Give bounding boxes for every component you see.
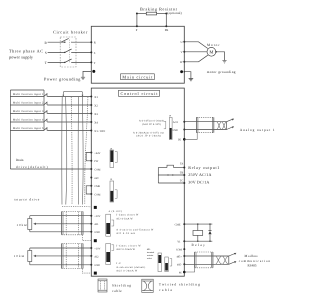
svg-text:10kΩ: 10kΩ [14,254,25,258]
svg-text:A-sub-circuit (default): A-sub-circuit (default) [116,266,145,269]
terminal V [183,51,185,53]
+24V terminal [90,152,92,154]
AO1 terminal [183,121,185,123]
svg-text:Main circuit: Main circuit [122,75,153,80]
GND wire AO [184,129,226,131]
svg-text:A 0-10V(or 0-20mA): A 0-10V(or 0-20mA) [139,119,164,122]
svg-text:10kΩ: 10kΩ [17,223,28,227]
svg-text:communication: communication [239,259,271,263]
svg-text:250V AC/1A: 250V AC/1A [188,172,211,177]
AI2 notes [116,214,154,236]
svg-text:U: U [181,40,184,44]
twisted cable bundle B [78,97,88,205]
motor M [207,43,220,56]
AO1 jumper bracket [164,121,166,129]
PE dot bottom left [94,272,97,275]
svg-text:S: S [94,51,96,55]
svg-text:PE: PE [178,139,181,142]
wire V to motor [184,51,206,53]
svg-text:Three phase AC: Three phase AC [9,49,43,54]
485 jumper strip 1 [158,253,162,272]
svg-text:Drain: Drain [16,158,24,162]
svg-text:V: V [181,50,184,54]
svg-text:Relay output1: Relay output1 [188,165,219,170]
svg-text:R: R [94,41,96,45]
svg-text:AI2 0-JmA W: AI2 0-JmA W [116,217,133,220]
multi function input 1 [10,93,98,99]
jumper strip J3 [110,147,117,167]
AI1 terminal [90,223,92,225]
svg-text:TA: TA [180,162,183,165]
svg-text:PB: PB [165,29,169,32]
wire GND pot2 [30,264,92,266]
COM2 terminal [90,177,92,179]
wire P stub [136,14,138,27]
svg-text:AI2 0-20 mA: AI2 0-20 mA [116,232,135,235]
svg-text:X1: X1 [94,95,98,99]
motor ground wire [216,52,224,61]
svg-text:30V DC/1A: 30V DC/1A [188,180,209,185]
svg-text:R: R [45,41,48,45]
AO2 jumper strip S2 [106,244,114,265]
potentiometer RP1 10k [17,216,37,232]
GND terminal AO [183,129,185,131]
TA terminal [183,167,185,169]
twisted pair 485 [216,256,229,264]
485 shield drain [184,268,194,272]
PE terminal left [92,70,95,73]
PE right ground wire [184,72,191,79]
svg-text:J-Cmos closet W: J-Cmos closet W [116,244,141,247]
phase T row [45,59,96,65]
svg-text:resistor: resistor [147,254,154,257]
svg-text:Analog output 1: Analog output 1 [240,128,275,132]
terminal PB [165,25,167,27]
ground symbol left [81,77,85,79]
svg-text:power supply: power supply [9,55,34,60]
svg-text:CME: CME [94,185,100,188]
485 terminal resistor note [147,248,155,260]
svg-text:T: T [94,61,96,65]
AI2 jumper strip S1 [106,214,114,236]
svg-text:motor grounding: motor grounding [207,70,236,74]
legend twisted shielding cable [142,279,153,292]
shield box AO1 [197,117,214,132]
Y1 terminal [183,240,185,242]
svg-text:COM: COM [176,248,183,251]
AO1 wire [184,121,226,123]
potentiometer RP2 10k [14,248,36,265]
svg-text:source drive: source drive [14,198,39,202]
svg-text:Shielding: Shielding [112,283,131,287]
ground symbol PE right [189,79,194,81]
terminal P [136,25,138,27]
AO shield drain to PE [183,138,186,141]
cable shield drain to PE [62,205,91,207]
multi function input 2 [10,102,98,108]
485 jumper strip 2 [165,257,172,272]
common wire to COM [10,168,91,170]
svg-text:X2: X2 [94,103,98,107]
svg-text:PE: PE [179,271,182,274]
svg-text:(optional): (optional) [167,11,181,15]
svg-text:485: 485 [147,248,151,251]
svg-text:AI1: AI1 [94,223,99,226]
Control circuit label [119,90,160,96]
legend shielding cable [98,279,107,292]
multi function input 4 [10,119,98,125]
svg-text:cable: cable [112,289,122,293]
svg-text:485-: 485- [177,264,182,267]
svg-text:+24V: +24V [94,152,100,155]
svg-text:Power grounding: Power grounding [44,76,81,81]
jumper CME-COM [86,186,91,194]
svg-text:485+: 485+ [176,255,182,258]
wire AI2 [36,255,92,257]
svg-text:Circuit breaker: Circuit breaker [53,29,88,34]
svg-text:CME: CME [175,223,181,226]
wire to ground [83,71,91,77]
terminal W [183,61,185,63]
TC terminal [183,182,185,184]
svg-text:Multi function input 4: Multi function input 4 [13,119,44,122]
485 arrows [229,253,237,264]
+10V terminal [90,215,92,217]
svg-text:select: select [147,257,152,260]
twisted pair AO1 [217,122,227,130]
svg-text:Twisted shielding: Twisted shielding [159,282,200,286]
485+ terminal [183,255,185,257]
terminal U [183,41,185,43]
pot1 shield drain [82,235,91,241]
wire PB stub [165,14,167,27]
485- terminal [183,263,185,265]
svg-text:RS485: RS485 [248,263,257,267]
wire +10V pot2 [30,247,92,249]
multi function input 5 [10,127,105,133]
CME terminal [90,185,92,187]
svg-text:Modbus: Modbus [245,254,259,258]
relay output contacts [158,165,184,183]
AO1 selection notes [133,119,164,137]
svg-text:S: S [45,51,47,55]
svg-text:X3: X3 [94,112,98,116]
svg-text:24V: 24V [94,177,99,180]
phase S row [45,49,96,55]
svg-text:GND: GND [172,129,178,132]
svg-text:Multi function input 2: Multi function input 2 [13,102,44,105]
phase R row [45,38,96,45]
control circuit block [91,88,184,276]
PE terminal right [180,70,183,73]
svg-text:M: M [209,50,213,55]
svg-text:(AO1 JP 0-20mA): (AO1 JP 0-20mA) [136,135,161,138]
jumper strip J4 [110,178,117,202]
PE terminal 485 [183,271,186,274]
svg-text:AO1: AO1 [173,121,179,124]
svg-text:X5/HDI: X5/HDI [94,130,105,133]
AO2 notes [116,244,145,272]
svg-text:cable: cable [159,288,173,292]
svg-text:X4: X4 [94,120,98,124]
shield box pot2 [62,244,83,269]
Main circuit label [121,74,155,80]
svg-text:Multi function input 5: Multi function input 5 [13,127,44,130]
AO1 jumper strip [169,115,172,140]
svg-text:Y1: Y1 [177,241,181,244]
svg-text:A 4-unit-in and-Umount W: A 4-unit-in and-Umount W [116,228,154,231]
svg-text:J-C: J-C [116,262,121,265]
svg-text:COM: COM [94,193,101,196]
svg-text:PW: PW [94,160,98,163]
svg-text:GND: GND [94,231,100,234]
diode D [208,231,211,234]
wire W to motor [184,55,208,62]
main circuit block [91,26,184,83]
PE dot mid left [94,206,97,209]
COM3 terminal [90,193,92,195]
circuit breaker QF [53,29,88,67]
svg-text:GND: GND [94,264,100,267]
svg-text:TB: TB [180,172,184,175]
CME terminal [183,223,185,225]
AO1 arrows [227,119,235,130]
GND terminal [90,231,92,233]
svg-text:Motor: Motor [207,43,220,47]
485- wire [184,263,229,265]
wire +10V [30,215,92,217]
shield box 485 [195,252,213,268]
wire GND [30,231,92,233]
TB terminal [183,174,185,176]
svg-text:W: W [180,60,183,64]
svg-text:COM: COM [94,168,101,171]
PE dot pot1 [94,239,97,242]
jumper +24V-PW [86,153,91,161]
svg-text:T: T [45,61,48,65]
svg-text:Relay: Relay [192,243,206,247]
COM terminal 485 [183,248,185,250]
svg-text:AO2 0-20mA W: AO2 0-20mA W [116,270,138,273]
wire U to motor [184,42,208,49]
PW terminal [90,160,92,162]
svg-text:TC: TC [180,180,184,183]
multi function input rows [10,90,44,169]
svg-text:AI2: AI2 [94,255,99,258]
pot2 shield drain [82,269,91,274]
twisted cable bundle A [62,91,84,204]
svg-text:J-Cmos closet W: J-Cmos closet W [116,214,139,217]
wire AI1 [36,223,92,225]
pot2 terminals [90,247,92,249]
svg-text:Multi function input 3: Multi function input 3 [13,110,44,113]
multi function input 3 [10,110,98,116]
svg-text:terminal: terminal [147,251,155,254]
svg-text:drive(default): drive(default) [16,165,48,169]
braking resistor R-BR [136,7,182,16]
ground symbol motor [222,61,226,63]
svg-text:+10V: +10V [94,247,100,250]
svg-text:AO2 0-20mA W: AO2 0-20mA W [116,248,135,251]
svg-text:+10V: +10V [94,215,100,218]
svg-text:P: P [136,29,138,32]
shield box pot1 [62,212,83,235]
svg-text:(AO1 JP 0-10V): (AO1 JP 0-10V) [142,123,161,126]
485+ wire [184,255,229,257]
svg-text:Multi function input 1: Multi function input 1 [13,93,44,96]
svg-text:Control circuit: Control circuit [121,91,159,96]
svg-text:JP: JP [169,115,172,118]
relay coil KA [184,224,212,241]
